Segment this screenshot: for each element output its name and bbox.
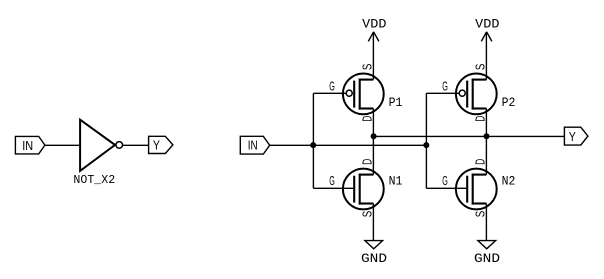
svg-text:G: G [329,174,335,188]
port Y (left symbol) [149,136,173,153]
svg-text:Y: Y [153,139,161,153]
wire gate bus 2 vertical [425,93,427,188]
svg-text:S: S [360,210,375,217]
svg-text:P2: P2 [502,95,516,110]
svg-text:D: D [473,159,488,165]
wire drain of N1 to output net [372,136,374,175]
svg-text:G: G [329,79,335,93]
inverter triangle NOT_X2 [80,120,115,171]
power symbol VDD 2 (arrow) [481,32,492,42]
wire source of N1 to GND [372,204,374,241]
svg-text:D: D [473,115,488,121]
junction dot output at P2/N2 drains [484,133,490,139]
wire gate of P2 [426,92,458,94]
transistor N2 (NMOS) [456,169,497,210]
svg-text:D: D [360,115,375,121]
wire gate of P1 [313,92,345,94]
svg-text:VDD: VDD [362,17,386,32]
port IN (left symbol) [15,136,45,154]
svg-text:N1: N1 [389,173,403,188]
junction dot net IN at gate bus 2 [423,142,429,148]
port IN (schematic) [240,136,269,154]
svg-text:NOT_X2: NOT_X2 [73,173,115,187]
svg-text:D: D [360,159,375,165]
svg-text:VDD: VDD [475,17,499,32]
wire source of P2 to VDD [485,32,487,79]
wire drain of N2 to output net [485,136,487,175]
svg-text:G: G [442,79,448,93]
svg-text:N2: N2 [502,173,516,188]
transistor P1 (PMOS) [343,74,384,115]
svg-text:S: S [360,63,375,70]
transistor P2 (PMOS) [456,74,497,115]
junction dot net IN at gate bus 1 [310,142,316,148]
wire source of N2 to GND [485,204,487,241]
wire drain of P2 to output net [485,109,487,137]
ground symbol GND 1 [365,241,383,249]
wire drain of P1 to output net [372,109,374,137]
wire gate bus 1 vertical [312,93,314,188]
svg-text:Y: Y [569,130,577,144]
svg-text:GND: GND [474,251,500,266]
svg-text:S: S [473,210,488,217]
svg-text:P1: P1 [389,95,403,110]
svg-text:GND: GND [361,251,387,266]
wire IN to inverter input [45,144,80,146]
wire bubble to port Y [123,144,149,146]
wire gate of N2 [426,187,467,189]
wire source of P1 to VDD [372,32,374,79]
wire net IN horizontal [270,144,427,146]
transistor N1 (NMOS) [343,169,384,210]
svg-text:IN: IN [22,138,33,153]
svg-text:IN: IN [248,138,258,153]
wire net Y horizontal [373,135,564,137]
power symbol VDD 1 (arrow) [368,32,379,42]
ground symbol GND 2 [478,241,496,249]
svg-text:S: S [473,63,488,70]
svg-text:G: G [442,174,448,188]
wire gate of N1 [313,187,354,189]
inverter output bubble [116,142,123,149]
port Y (schematic) [564,127,588,145]
junction dot output at P1/N1 drains [371,133,377,139]
